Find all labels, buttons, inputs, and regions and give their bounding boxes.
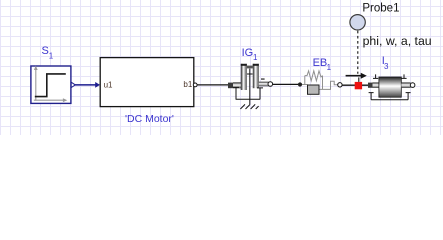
support bracket <box>233 87 263 99</box>
top bar <box>247 66 253 69</box>
step icon y-axis <box>35 69 37 101</box>
wire IG1 to EB1 <box>273 83 298 85</box>
svg-text:u1: u1 <box>104 80 113 89</box>
probe direction arrow <box>346 75 362 77</box>
signal wire S1 to u1 <box>75 84 97 86</box>
grid background <box>0 0 443 135</box>
left shaft <box>233 82 246 88</box>
svg-text:EB: EB <box>313 57 328 69</box>
svg-text:'DC Motor': 'DC Motor' <box>125 113 174 125</box>
svg-text:b1: b1 <box>183 80 192 89</box>
input port u1 arrow <box>95 82 100 88</box>
gear IG1 <box>228 64 273 109</box>
frame lines <box>302 76 308 85</box>
left shaft <box>373 82 380 88</box>
inertia I3 <box>368 74 415 99</box>
svg-text:1: 1 <box>49 52 54 61</box>
wire EB1 to I3 <box>342 84 368 86</box>
svg-text:S: S <box>42 45 49 57</box>
label IG1 <box>242 47 258 62</box>
right frame step <box>319 76 338 90</box>
flange_a square <box>228 83 233 89</box>
svg-text:1: 1 <box>253 53 258 62</box>
svg-text:phi, w, a, tau: phi, w, a, tau <box>363 34 432 48</box>
ground hatching <box>240 104 258 109</box>
svg-text:1: 1 <box>327 63 332 72</box>
flange_b circle <box>410 83 415 88</box>
svg-text:3: 3 <box>384 62 389 71</box>
svg-text:IG: IG <box>242 47 254 59</box>
svg-text:Probe1: Probe1 <box>362 3 399 15</box>
block 'DC Motor' <box>100 58 194 107</box>
top-left mark <box>373 74 378 78</box>
step icon x-axis <box>34 99 65 101</box>
flange_a dot <box>298 82 302 86</box>
step icon signal <box>35 74 66 97</box>
probe attach marker (red) <box>355 82 362 89</box>
probe dashed line <box>357 31 359 74</box>
inertia body <box>379 77 401 97</box>
right shaft <box>259 82 269 87</box>
flange_a square <box>368 83 373 88</box>
probe Probe1 circle <box>350 15 365 30</box>
port b1 flange <box>193 83 197 87</box>
bottom bracket <box>369 93 411 100</box>
flange_b circle <box>268 82 273 87</box>
right shaft <box>401 82 410 88</box>
label S1 <box>42 45 54 61</box>
output connector chevron <box>71 82 75 87</box>
gear wheel a <box>241 64 247 90</box>
step source S1 <box>31 66 75 104</box>
gear b hub tick <box>261 78 265 79</box>
flange_b circle <box>338 83 342 87</box>
top-right mark <box>401 74 406 78</box>
wire b1 to IG1 <box>197 84 228 86</box>
probe attach stem <box>358 77 360 82</box>
spring <box>305 71 323 81</box>
elasto-backlash EB1 <box>298 71 342 94</box>
label I3 <box>382 55 389 71</box>
label EB1 <box>313 57 332 72</box>
gear wheel b <box>253 64 259 88</box>
backlash box <box>308 85 320 94</box>
axle line <box>247 69 253 105</box>
